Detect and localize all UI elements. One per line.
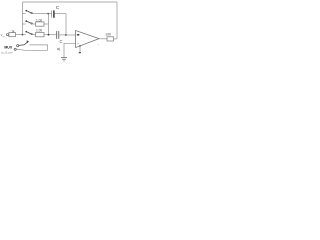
switch S1	[25, 10, 27, 12]
wire output to feedback	[114, 38, 117, 40]
switch S2	[25, 20, 27, 22]
node row1-bus junction	[47, 13, 49, 15]
wire row2 left	[23, 23, 26, 25]
wire control loop top	[30, 44, 48, 46]
wire top feedback	[23, 1, 118, 3]
wire main mid	[33, 34, 36, 36]
svg-text:C: C	[60, 39, 63, 44]
wire control loop bottom	[24, 49, 47, 51]
svg-text:v: v	[98, 44, 100, 47]
wire row1 to cap	[48, 13, 51, 15]
node input-bus	[22, 34, 24, 36]
capacitor C upper	[51, 10, 53, 17]
resistor R4 100	[107, 37, 114, 41]
capacitor C lower	[56, 31, 58, 39]
wire row1 right	[33, 13, 49, 15]
wire supply stub	[79, 46, 81, 52]
node main-bus	[48, 34, 50, 36]
terminal mux A	[17, 45, 19, 47]
svg-text:100: 100	[105, 33, 111, 37]
wire output	[99, 38, 107, 40]
terminal vin	[6, 34, 8, 36]
wire noninverting input	[64, 43, 76, 57]
svg-text:a): a)	[57, 46, 61, 51]
wire main right	[44, 34, 56, 36]
svg-text:ω₀,0,ω∞: ω₀,0,ω∞	[1, 51, 13, 55]
svg-text:1k: 1k	[11, 29, 15, 33]
node op-amp bottom	[79, 45, 81, 47]
wire vin to bus	[15, 34, 22, 36]
svg-text:C: C	[56, 5, 60, 11]
wire mux arrow	[19, 42, 28, 45]
wire right feedback vertical	[116, 2, 118, 39]
wire row2 mid	[33, 23, 36, 25]
wire row2 right	[44, 23, 49, 25]
resistor R1 1k	[9, 33, 16, 37]
wire vertical x66	[65, 14, 67, 35]
wire cap lower to node	[59, 34, 66, 36]
wire cap upper to right	[55, 13, 66, 15]
svg-text:in: in	[3, 36, 5, 38]
switch S3	[25, 31, 27, 33]
node inverting input	[65, 34, 67, 36]
ground	[61, 56, 67, 58]
ground tick stub	[79, 52, 81, 53]
op-amp U1	[76, 31, 99, 48]
wire right bus	[48, 14, 50, 35]
wire main left	[23, 34, 26, 36]
wire mux B link	[16, 49, 24, 50]
wire control loop right	[47, 45, 49, 50]
resistor R3 1.00	[36, 33, 44, 37]
wire left bus	[22, 2, 24, 35]
wire row1 left	[23, 13, 26, 15]
resistor R2 1.00	[36, 22, 44, 26]
svg-text:MUX: MUX	[4, 45, 12, 49]
svg-text:+: +	[77, 42, 79, 46]
terminal mux B	[14, 48, 16, 50]
wire to op-amp	[66, 34, 76, 36]
svg-text:1.00: 1.00	[36, 18, 42, 22]
svg-text:1.00: 1.00	[36, 29, 42, 33]
